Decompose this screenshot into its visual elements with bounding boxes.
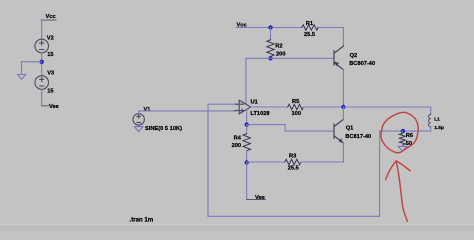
- node junction Vcc/R2: [268, 25, 272, 29]
- inductor L1: [429, 114, 431, 127]
- svg-text:.tran 1m: .tran 1m: [130, 216, 154, 223]
- svg-text:R5: R5: [292, 99, 299, 105]
- voltage source V2: [35, 39, 49, 53]
- Q2 PNP arrow: [335, 61, 340, 66]
- svg-text:1.5p: 1.5p: [434, 125, 444, 131]
- op-amp U1: [235, 100, 251, 114]
- wire Q1 collector: [342, 107, 344, 119]
- wire L1 bottom to load node: [403, 127, 431, 131]
- wire: [21, 62, 23, 75]
- transistor Q1: [334, 119, 343, 143]
- op-amp V- pin wire: [246, 110, 248, 125]
- svg-text:25.5: 25.5: [288, 166, 299, 172]
- svg-text:200: 200: [276, 51, 286, 57]
- svg-text:R1: R1: [306, 21, 313, 27]
- svg-text:100: 100: [292, 111, 302, 117]
- wire Q2 emitter to output node: [342, 70, 344, 107]
- wire: [41, 89, 43, 106]
- wire: [342, 28, 344, 47]
- wire feedback to op-amp minus input: [208, 104, 403, 216]
- svg-text:Vee: Vee: [49, 104, 59, 110]
- svg-text:15: 15: [47, 52, 53, 58]
- svg-text:R6: R6: [406, 133, 413, 139]
- svg-text:BC807-40: BC807-40: [349, 61, 375, 67]
- red annotation arrow: [386, 161, 411, 221]
- svg-text:U1: U1: [251, 100, 258, 106]
- svg-text:V2: V2: [47, 36, 54, 42]
- svg-text:Vcc: Vcc: [46, 14, 56, 20]
- svg-text:V3: V3: [47, 70, 54, 76]
- node output junction: [341, 105, 345, 109]
- node junction load R6: [401, 129, 405, 133]
- ground (below V1): [134, 127, 143, 132]
- node junction op-amp V- / R4: [245, 122, 249, 126]
- wire: [22, 61, 42, 63]
- voltage source V1: [133, 114, 144, 125]
- resistor R6: [401, 131, 403, 133]
- svg-text:R4: R4: [234, 136, 242, 142]
- red annotation circle around R6: [381, 112, 418, 152]
- transistor Q2: [334, 46, 343, 70]
- wire: [41, 53, 43, 76]
- node Vee (bottom-left flag): [42, 105, 49, 107]
- wire to Q2 base: [271, 57, 335, 59]
- wire: [138, 125, 140, 127]
- ground (left): [18, 75, 26, 80]
- node Vcc (middle flag): [236, 27, 251, 29]
- bottom window edge band: [0, 225, 474, 231]
- svg-text:BC817-40: BC817-40: [345, 134, 371, 140]
- node Vee (middle flag): [247, 199, 266, 201]
- svg-text:Vee: Vee: [255, 195, 265, 201]
- svg-text:LT1028: LT1028: [250, 111, 269, 117]
- resistor R4: [246, 125, 248, 134]
- Q1 NPN arrow: [339, 138, 344, 143]
- svg-text:25.5: 25.5: [304, 32, 315, 38]
- resistor R5: [288, 104, 304, 109]
- svg-text:SINE(0 5 10K): SINE(0 5 10K): [145, 126, 182, 132]
- svg-text:R3: R3: [289, 154, 296, 160]
- wire: [41, 20, 43, 39]
- resistor R1: [318, 27, 343, 29]
- resistor R2: [270, 28, 272, 40]
- node junction R2 bottom: [268, 56, 272, 60]
- wire to op-amp V+ pin: [246, 58, 271, 104]
- svg-text:Q2: Q2: [350, 53, 358, 59]
- wire Vcc rail: [236, 27, 302, 29]
- wire R4 bottom to Vee flag: [246, 163, 248, 200]
- wire to Q1 base: [247, 125, 334, 132]
- wire op-amp output: [251, 106, 288, 108]
- resistor R3: [247, 161, 285, 163]
- wire output to L1: [343, 107, 430, 114]
- node junction V2/V3/gnd: [40, 60, 44, 64]
- wire Q1 emitter: [342, 143, 344, 162]
- ground (below R6): [398, 146, 406, 151]
- node Vcc (top-left flag): [41, 19, 56, 21]
- svg-text:L1: L1: [434, 116, 440, 122]
- wire: [139, 111, 235, 114]
- svg-text:V1: V1: [144, 107, 151, 113]
- svg-text:15: 15: [47, 88, 53, 94]
- node junction R4/R3/Vee: [245, 160, 249, 164]
- svg-text:R2: R2: [275, 43, 282, 49]
- voltage source V3: [35, 76, 49, 90]
- svg-text:Q1: Q1: [346, 126, 354, 132]
- svg-text:200: 200: [232, 143, 242, 149]
